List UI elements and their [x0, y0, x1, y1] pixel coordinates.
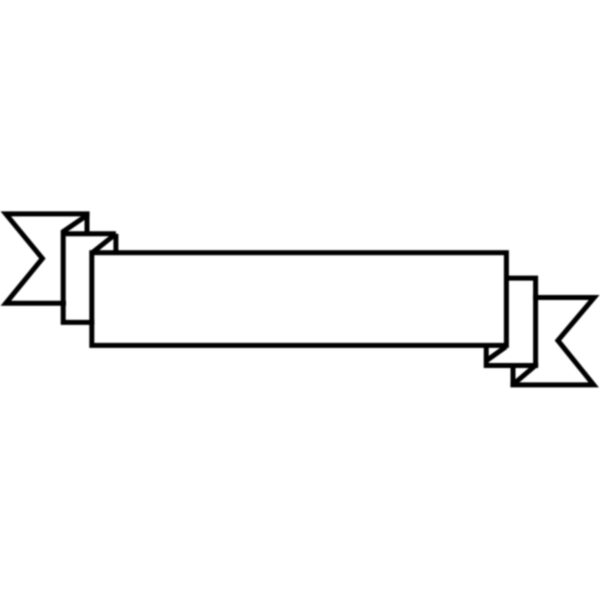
right tall strip top + right edge: [504, 278, 536, 365]
left strip right edge: [85, 214, 90, 234]
right lower fold diagonal at body corner: [487, 347, 506, 361]
left swallowtail flag: [6, 214, 90, 303]
banner body: [92, 253, 507, 346]
right small fold diagonal: [514, 366, 536, 384]
left upper fold top edge: [63, 231, 116, 236]
left fold diagonal + left strip left edge + left strip bottom edge: [63, 214, 94, 322]
right swallowtail flag: [510, 298, 594, 385]
left upper fold right edge: [113, 234, 118, 253]
right lower strip left edge + bottom edge: [486, 347, 538, 366]
right small fold left edge: [511, 366, 516, 385]
left upper fold diagonal: [93, 234, 116, 253]
